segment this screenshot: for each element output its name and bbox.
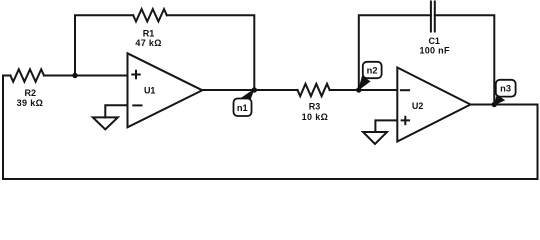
ground (U2) (363, 132, 387, 144)
resistor R1 (133, 9, 167, 21)
svg-text:U1: U1 (144, 86, 156, 96)
wire R2 to U1 noninverting input (44, 75, 128, 77)
svg-text:n1: n1 (237, 103, 248, 113)
node n2 flag (358, 62, 382, 91)
capacitor C1 (431, 2, 435, 32)
svg-text:n3: n3 (500, 84, 511, 94)
label R1 value (135, 28, 161, 48)
label R3 value (302, 102, 328, 122)
svg-text:100 nF: 100 nF (419, 45, 450, 55)
node n3 flag (494, 80, 516, 106)
wire U2 noninverting input to ground (375, 120, 397, 132)
label R2 value (17, 88, 43, 108)
label C1 value (419, 36, 450, 55)
node n2 junction dot (356, 87, 361, 92)
wire C1 branch up from n2 (359, 15, 431, 90)
wire outer feedback loop (n3 to bottom to left to R2) (3, 76, 538, 180)
svg-text:R3: R3 (309, 102, 321, 112)
wire C1 right to n3 (435, 15, 495, 104)
node n3 junction dot (492, 102, 497, 107)
resistor R2 (10, 69, 44, 81)
resistor R3 (298, 84, 330, 96)
node A junction dot (72, 73, 77, 78)
svg-text:n2: n2 (367, 65, 378, 75)
op-amp U2 (397, 68, 470, 142)
wire U2 output to right edge (471, 104, 538, 106)
node n1 flag (234, 88, 255, 116)
wire U1 output to R3 (202, 89, 297, 91)
wire R2 left lead (3, 75, 10, 77)
svg-text:U2: U2 (412, 101, 424, 111)
wire U1 inverting input to ground (105, 105, 127, 117)
svg-text:R2: R2 (25, 88, 37, 98)
wire R1 branch up from node A (75, 15, 133, 75)
node n1 junction dot (252, 87, 257, 92)
wire R1 right to n1 (167, 15, 255, 90)
wire R3 to U2 inverting input (330, 89, 398, 91)
svg-text:39 kΩ: 39 kΩ (17, 98, 43, 108)
svg-text:47 kΩ: 47 kΩ (135, 38, 161, 48)
svg-text:R1: R1 (143, 28, 155, 38)
svg-text:10 kΩ: 10 kΩ (302, 112, 328, 122)
ground (U1) (93, 117, 118, 129)
op-amp U1 (128, 53, 203, 127)
